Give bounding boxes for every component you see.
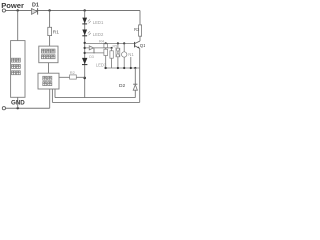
svg-text:GND: GND xyxy=(11,99,25,106)
svg-text:D3: D3 xyxy=(89,55,94,59)
svg-text:LED2: LED2 xyxy=(93,32,104,37)
svg-text:R2: R2 xyxy=(70,70,76,75)
svg-text:N1: N1 xyxy=(128,52,134,57)
svg-text:LED3: LED3 xyxy=(96,62,107,67)
svg-text:D2: D2 xyxy=(119,83,125,89)
svg-text:Q1: Q1 xyxy=(140,43,145,48)
svg-text:R3: R3 xyxy=(134,27,140,32)
svg-text:D1: D1 xyxy=(32,3,39,9)
svg-text:Power: Power xyxy=(1,1,24,10)
svg-text:R1: R1 xyxy=(53,30,59,36)
svg-text:LED1: LED1 xyxy=(93,20,104,25)
svg-text:R4: R4 xyxy=(99,38,105,43)
